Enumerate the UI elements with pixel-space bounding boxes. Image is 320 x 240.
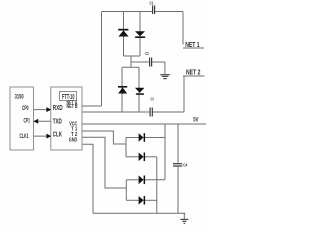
svg-text:C1: C1 [150,1,154,6]
svg-text:C2: C2 [145,51,149,56]
svg-text:C4: C4 [183,162,187,167]
svg-text:RXD: RXD [53,105,63,112]
svg-text:NET 1: NET 1 [185,42,199,49]
svg-text:CLK1: CLK1 [20,134,29,140]
svg-text:C3: C3 [151,96,154,101]
svg-text:5V: 5V [193,118,198,124]
svg-text:TXD: TXD [53,119,62,126]
svg-text:3150: 3150 [15,94,24,101]
svg-text:NET 2: NET 2 [186,69,200,76]
svg-text:CP0: CP0 [22,106,29,112]
svg-text:GND: GND [69,137,78,143]
svg-text:CP1: CP1 [24,119,31,125]
svg-text:NET B: NET B [67,104,78,110]
svg-text:CLK: CLK [53,131,62,138]
